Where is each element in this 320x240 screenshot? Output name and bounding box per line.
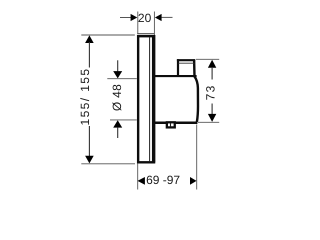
dim 155/155 line lower segment	[88, 126, 90, 157]
dim 73 line lower segment	[211, 104, 213, 115]
handle body top line	[154, 75, 196, 77]
handle top block left edge	[177, 59, 179, 77]
escutcheon plate inner thin line	[149, 37, 151, 161]
handle top block top edge	[177, 59, 195, 61]
handle right edge	[194, 59, 198, 121]
handle top block inner thin line	[178, 62, 194, 64]
escutcheon plate right edge (thick)	[152, 35, 155, 162]
dim 73 top arrowhead	[208, 60, 216, 68]
dim 69-97 left extension line	[137, 164, 139, 190]
dim 155/155 bottom arrowhead	[85, 156, 94, 164]
dim d48 top extension line	[107, 78, 137, 80]
dim 20 left extension line	[137, 12, 139, 34]
dim 155/155 bottom extension line	[81, 163, 135, 165]
svg-text:69 -97: 69 -97	[146, 173, 180, 187]
dim 155/155 top arrowhead	[85, 35, 94, 43]
dim 20 right tail	[162, 16, 173, 18]
dim d48 bottom extension line	[110, 119, 137, 121]
dim 20 left tail	[120, 17, 131, 19]
dim d48 bottom arrowhead	[113, 120, 122, 127]
dim 73 top extension line	[196, 58, 219, 60]
dim 20 right extension line	[153, 12, 155, 36]
escutcheon plate thin top cap	[137, 33, 154, 35]
svg-text:20: 20	[138, 11, 152, 25]
dim 20 right arrowhead	[155, 14, 162, 21]
dim d48 bottom tail	[117, 128, 119, 138]
svg-text:155/ 155: 155/ 155	[78, 68, 92, 126]
dim 155/155 line upper segment	[88, 42, 90, 68]
dim 69-97 left arrowhead	[138, 177, 145, 185]
handle bottom tab divider	[170, 123, 172, 127]
dim 73 bottom arrowhead	[208, 114, 216, 122]
dim 69-97 right arrowhead	[190, 177, 197, 185]
dim 73 bottom extension line	[198, 121, 219, 123]
dim d48 top arrowhead	[113, 71, 122, 78]
handle body bottom line	[154, 121, 197, 124]
svg-text:73: 73	[203, 84, 217, 100]
dim 20 left arrowhead	[131, 14, 138, 21]
dim d48 top tail	[117, 60, 119, 71]
handle bottom tab	[167, 122, 175, 127]
escutcheon plate body	[138, 36, 154, 162]
dim 155/155 top extension line	[81, 34, 135, 36]
svg-text:Ø 48: Ø 48	[110, 84, 124, 111]
dim 69-97 right extension line	[196, 125, 198, 190]
dim 73 line upper segment	[211, 67, 213, 80]
